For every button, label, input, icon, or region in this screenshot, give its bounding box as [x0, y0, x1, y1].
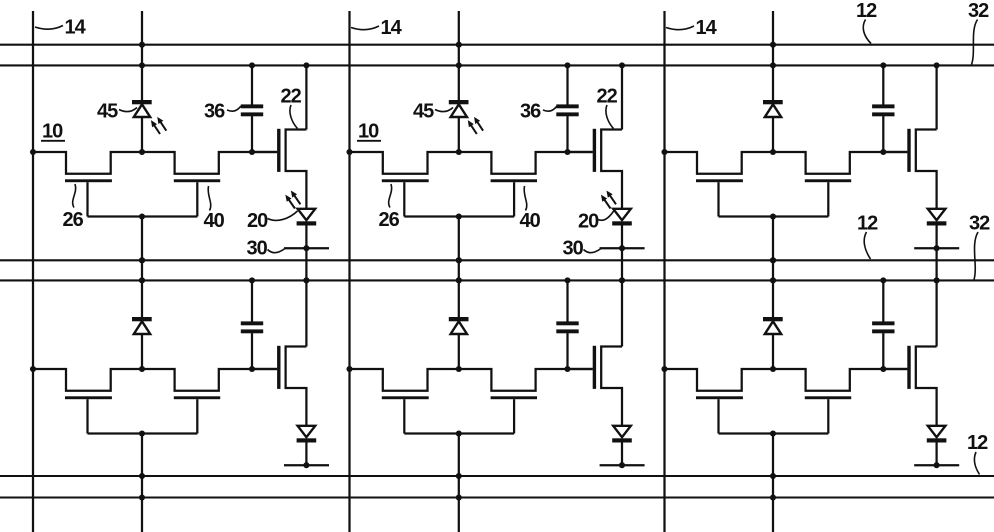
wire: capacitor drop from common line 32 (cell r2c2): [566, 280, 568, 321]
LED 20 (cell r1c3) cathode bar: [927, 221, 947, 225]
transistor 40 (cell r1c2) gate bar: [491, 179, 537, 182]
wire: capacitor to storage node (cell r2c2): [566, 333, 568, 369]
wire: common stub drop to line 32 (cell r1c1): [305, 248, 307, 280]
transistor 22 (cell r2c3) channel path: [916, 347, 937, 426]
wire: capacitor drop from common line 32 (cell r1c3): [882, 65, 884, 104]
node: junction dots (cell r1c3): [661, 42, 939, 284]
wire: transistor 40 gate lead (cell r2c3): [827, 399, 829, 433]
transistor 40 (cell r2c1) gate bar: [174, 396, 220, 399]
transistor 22 (cell r1c1) gate bar: [277, 129, 280, 172]
node: junction dots (cell r1c2): [346, 42, 625, 284]
svg-text:12: 12: [857, 213, 878, 235]
transistor 26 (cell r2c2) gate bar: [382, 396, 429, 399]
capacitor 36 (cell r2c1) bottom plate: [241, 329, 263, 333]
transistor 22 (cell r2c2) gate bar: [593, 346, 596, 389]
capacitor 36 (cell r2c3) top plate: [872, 321, 894, 325]
wire: LED cathode to common stub (cell r1c1): [305, 226, 307, 249]
wire: gate bus of transistors 26/40 (cell r2c3): [719, 432, 829, 434]
wire: power supply line 12 (row 2, horizontal): [0, 259, 994, 261]
svg-text:14: 14: [696, 17, 718, 39]
transistor 22 (cell r1c2) gate bar: [593, 129, 596, 172]
wire: drive transistor drain drop from common line 32 (cell r2c2): [621, 280, 623, 346]
photodiode 45 (cell r2c1) triangle: [134, 321, 150, 334]
wire: LED cathode to common stub (cell r2c3): [935, 443, 937, 466]
photodiode 45 (cell r1c3) triangle: [765, 104, 781, 117]
wire: capacitor drop from common line 32 (cell r1c1): [251, 65, 253, 104]
LED 20 (cell r1c2) cathode bar: [612, 221, 632, 225]
transistor 22 (cell r2c2) channel path: [601, 347, 622, 426]
svg-text:14: 14: [381, 17, 403, 39]
wire: storage node to drive transistor gate (cell r1c3): [883, 151, 907, 153]
ground stub 30 (cell r1c1): [284, 247, 329, 249]
wire: transistor 40 gate lead (cell r1c1): [196, 182, 198, 216]
node: junction dots (cell r2c1): [30, 257, 310, 500]
light arrows out of LED 20 (cell r1c1): [286, 191, 301, 208]
transistor 26 (cell r2c3) gate bar: [696, 396, 743, 399]
wire: transistor 26 gate lead (cell r1c2): [403, 182, 405, 216]
wire: storage node to drive transistor gate (cell r1c1): [252, 151, 277, 153]
svg-text:32: 32: [969, 213, 990, 235]
photodiode 45 (cell r2c3) cathode bar: [763, 317, 783, 321]
transistor 22 (cell r1c1) channel path: [286, 130, 307, 209]
wire: storage node to drive transistor gate (cell r1c2): [568, 151, 593, 153]
wire: transistor 40 gate lead (cell r2c2): [513, 399, 515, 433]
svg-text:12: 12: [967, 432, 988, 454]
svg-text:45: 45: [413, 101, 434, 123]
capacitor 36 (cell r2c3) bottom plate: [872, 329, 894, 333]
transistor 26 (cell r2c1) gate bar: [65, 396, 112, 399]
svg-text:30: 30: [247, 238, 268, 260]
ground stub 30 (cell r2c3): [914, 464, 959, 466]
capacitor 36 (cell r2c1) top plate: [241, 321, 263, 325]
wire: drive transistor drain drop from common line 32 (cell r2c1): [305, 280, 307, 346]
photodiode 45 (cell r2c2) cathode bar: [449, 317, 469, 321]
wire: photodiode column stub and drop (cell r1c2): [458, 11, 460, 102]
transistor 40 (cell r2c3) gate bar: [805, 396, 851, 399]
wire: storage node to drive transistor gate (cell r2c2): [568, 368, 593, 370]
node: junction dots (cell r2c2): [346, 257, 625, 500]
wire: power supply line 12 (row 1, horizontal): [0, 44, 994, 46]
photodiode 45 (cell r1c3) cathode bar: [763, 100, 783, 104]
wire: photodiode drop from common line 32 (cell r2c3): [772, 280, 774, 319]
transistor 40 (cell r1c3) gate bar: [805, 179, 851, 182]
wire: gate bus drop to select pair (cell r1c1): [141, 217, 143, 281]
wire: capacitor to storage node (cell r1c1): [251, 116, 253, 152]
wire: photodiode drop from common line 32 (cell r2c1): [141, 280, 143, 319]
wire: cell row wire with source/drain path of transistors (cell r2c1): [33, 369, 277, 391]
wire: gate bus drop to select pair (cell r2c1): [141, 434, 143, 532]
LED 20 (cell r2c2) triangle: [613, 426, 631, 437]
capacitor 36 (cell r1c3) bottom plate: [872, 112, 894, 116]
LED 20 (cell r2c2) cathode bar: [612, 438, 632, 442]
wire: gate bus of transistors 26/40 (cell r1c2): [404, 215, 514, 217]
photodiode 45 (cell r1c2) triangle: [451, 104, 467, 117]
capacitor 36 (cell r1c1) bottom plate: [241, 112, 263, 116]
wire: drive transistor drain drop from common line 32 (cell r1c3): [935, 65, 937, 129]
wire: drive transistor drain drop from common line 32 (cell r1c1): [305, 65, 307, 129]
photodiode 45 (cell r2c3) triangle: [765, 321, 781, 334]
photodiode 45 (cell r1c1) cathode bar: [132, 100, 152, 104]
wire: photodiode column stub and drop (cell r1c3): [772, 11, 774, 102]
wire: capacitor to storage node (cell r1c3): [882, 116, 884, 152]
wire: photodiode column stub and drop (cell r1c1): [141, 11, 143, 102]
capacitor 36 (cell r2c2) top plate: [556, 321, 578, 325]
transistor 22 (cell r2c3) gate bar: [907, 346, 910, 389]
svg-text:30: 30: [563, 238, 584, 260]
wire: gate bus of transistors 26/40 (cell r1c1): [88, 215, 198, 217]
transistor 26 (cell r1c1) gate bar: [65, 179, 112, 182]
wire: transistor 40 gate lead (cell r1c2): [513, 182, 515, 216]
LED 20 (cell r1c1) cathode bar: [297, 221, 317, 225]
ground stub 30 (cell r2c1): [284, 464, 329, 466]
capacitor 36 (cell r1c2) bottom plate: [556, 112, 578, 116]
ground stub 30 (cell r2c2): [600, 464, 645, 466]
node: junction dots (cell r1c1): [30, 42, 310, 284]
capacitor 36 (cell r1c3) top plate: [872, 104, 894, 108]
svg-text:22: 22: [281, 86, 302, 108]
wire: select line 14 (column 1, vertical): [32, 11, 34, 532]
light arrows out of LED 20 (cell r1c2): [602, 191, 617, 208]
wire: common line 32 (row 2, horizontal): [0, 279, 994, 281]
wire: transistor 26 gate lead (cell r1c1): [86, 182, 88, 216]
transistor 22 (cell r2c1) channel path: [286, 347, 307, 426]
photodiode 45 (cell r2c2) triangle: [451, 321, 467, 334]
capacitor 36 (cell r1c1) top plate: [241, 104, 263, 108]
transistor 22 (cell r1c3) gate bar: [907, 129, 910, 172]
transistor 40 (cell r1c1) gate bar: [174, 179, 220, 182]
svg-text:10: 10: [42, 121, 63, 143]
wire: capacitor to storage node (cell r2c1): [251, 333, 253, 369]
wire: photodiode anode to storage node (cell r1c3): [772, 117, 774, 152]
wire: LED cathode to common stub (cell r1c3): [935, 226, 937, 249]
wire: drive transistor drain drop from common line 32 (cell r1c2): [621, 65, 623, 129]
wire: capacitor drop from common line 32 (cell r1c2): [566, 65, 568, 104]
svg-text:45: 45: [97, 101, 118, 123]
light arrows into photodiode 45 (cell r1c2): [468, 118, 483, 134]
wire: transistor 40 gate lead (cell r1c3): [827, 182, 829, 216]
wire: cell row wire with source/drain path of transistors (cell r1c2): [350, 152, 593, 174]
photodiode 45 (cell r1c2) cathode bar: [449, 100, 469, 104]
LED 20 (cell r2c3) cathode bar: [927, 438, 947, 442]
svg-text:26: 26: [63, 209, 84, 231]
wire: transistor 40 gate lead (cell r2c1): [196, 399, 198, 433]
LED 20 (cell r1c2) triangle: [613, 209, 631, 220]
wire: photodiode anode to storage node (cell r1c2): [458, 117, 460, 152]
svg-text:12: 12: [856, 0, 877, 22]
wire: transistor 26 gate lead (cell r2c3): [717, 399, 719, 433]
wire: common line 32 (row 1, horizontal): [0, 64, 994, 66]
wire: gate bus drop to select pair (cell r2c2): [458, 434, 460, 532]
wire: capacitor drop from common line 32 (cell r2c1): [251, 280, 253, 321]
wire: capacitor drop from common line 32 (cell r2c3): [882, 280, 884, 321]
wire: gate bus of transistors 26/40 (cell r2c2): [404, 432, 514, 434]
wire: transistor 26 gate lead (cell r2c1): [86, 399, 88, 433]
wire: common line 32 (row 3, horizontal, bottom): [0, 496, 994, 498]
LED 20 (cell r2c1) triangle: [298, 426, 316, 437]
LED 20 (cell r2c1) cathode bar: [297, 438, 317, 442]
wire: gate bus of transistors 26/40 (cell r2c1): [88, 432, 198, 434]
capacitor 36 (cell r1c2) top plate: [556, 104, 578, 108]
wire: common stub drop to line 32 (cell r1c2): [621, 248, 623, 280]
photodiode 45 (cell r1c1) triangle: [134, 104, 150, 117]
transistor 22 (cell r1c2) channel path: [601, 130, 622, 209]
wire: LED cathode to common stub (cell r2c1): [305, 443, 307, 466]
transistor 22 (cell r1c3) channel path: [916, 130, 937, 209]
svg-text:36: 36: [204, 101, 225, 123]
wire: common stub drop to line 32 (cell r1c3): [935, 248, 937, 280]
transistor 26 (cell r1c3) gate bar: [696, 179, 743, 182]
wire: storage node to drive transistor gate (cell r2c3): [883, 368, 907, 370]
wire: gate bus of transistors 26/40 (cell r1c3): [719, 215, 829, 217]
wire: power supply line 12 (row 3, horizontal, bottom): [0, 475, 994, 477]
wire: LED cathode to common stub (cell r2c2): [621, 443, 623, 466]
svg-text:36: 36: [520, 101, 541, 123]
ground stub 30 (cell r1c2): [600, 247, 645, 249]
wire: photodiode anode to storage node (cell r2c1): [141, 334, 143, 369]
wire: LED cathode to common stub (cell r1c2): [621, 226, 623, 249]
wire: gate bus drop to select pair (cell r2c3): [772, 434, 774, 532]
wire: cell row wire with source/drain path of transistors (cell r1c3): [665, 152, 908, 174]
svg-text:20: 20: [247, 210, 268, 232]
wire: transistor 26 gate lead (cell r2c2): [403, 399, 405, 433]
wire: select line 14 (column 2, vertical): [348, 11, 350, 532]
svg-text:32: 32: [968, 0, 989, 22]
wire: cell row wire with source/drain path of transistors (cell r2c2): [350, 369, 593, 391]
transistor 40 (cell r2c2) gate bar: [491, 396, 537, 399]
transistor 26 (cell r1c2) gate bar: [382, 179, 429, 182]
capacitor 36 (cell r2c2) bottom plate: [556, 329, 578, 333]
wire: drive transistor drain drop from common line 32 (cell r2c3): [935, 280, 937, 346]
svg-text:10: 10: [358, 121, 379, 143]
svg-text:14: 14: [65, 17, 87, 39]
ground stub 30 (cell r1c3): [914, 247, 959, 249]
svg-text:26: 26: [379, 209, 400, 231]
svg-text:40: 40: [204, 210, 225, 232]
wire: photodiode anode to storage node (cell r2c2): [458, 334, 460, 369]
node: junction dots (cell r2c3): [661, 257, 939, 500]
wire: transistor 26 gate lead (cell r1c3): [717, 182, 719, 216]
svg-text:40: 40: [520, 210, 541, 232]
wire: capacitor to storage node (cell r1c2): [566, 116, 568, 152]
wire: cell row wire with source/drain path of transistors (cell r1c1): [33, 152, 277, 174]
LED 20 (cell r2c3) triangle: [928, 426, 946, 437]
LED 20 (cell r1c3) triangle: [928, 209, 946, 220]
wire: gate bus drop to select pair (cell r1c3): [772, 217, 774, 281]
svg-text:20: 20: [578, 211, 599, 233]
wire: gate bus drop to select pair (cell r1c2): [458, 217, 460, 281]
svg-text:22: 22: [597, 86, 618, 108]
wire: photodiode anode to storage node (cell r1c1): [141, 117, 143, 152]
wire: photodiode anode to storage node (cell r2c3): [772, 334, 774, 369]
photodiode 45 (cell r2c1) cathode bar: [132, 317, 152, 321]
LED 20 (cell r1c1) triangle: [298, 209, 316, 220]
wire: storage node to drive transistor gate (cell r2c1): [252, 368, 277, 370]
wire: select line 14 (column 3, vertical): [663, 11, 665, 532]
wire: cell row wire with source/drain path of transistors (cell r2c3): [665, 369, 908, 391]
transistor 22 (cell r2c1) gate bar: [277, 346, 280, 389]
wire: capacitor to storage node (cell r2c3): [882, 333, 884, 369]
wire: photodiode drop from common line 32 (cell r2c2): [458, 280, 460, 319]
light arrows into photodiode 45 (cell r1c1): [152, 118, 167, 134]
